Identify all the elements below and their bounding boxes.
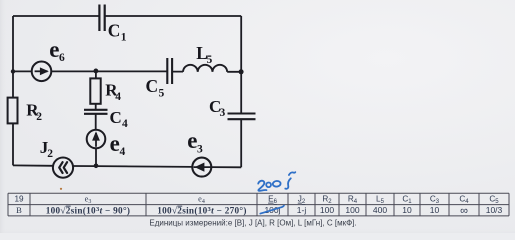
svg-text:5: 5 xyxy=(159,88,165,100)
svg-text:3: 3 xyxy=(197,144,203,156)
resistor R2 xyxy=(8,98,18,124)
strike through 100j xyxy=(260,206,284,214)
capacitor C4 xyxy=(84,110,108,114)
svg-text:10: 10 xyxy=(402,205,412,215)
capacitor C5 xyxy=(167,58,172,84)
wire left side xyxy=(12,16,14,165)
svg-text:4: 4 xyxy=(120,146,126,158)
svg-text:3: 3 xyxy=(220,107,226,119)
svg-text:C: C xyxy=(146,76,159,96)
svg-text:100: 100 xyxy=(320,205,334,215)
wire R4 branch vertical xyxy=(95,71,97,166)
handwritten 200j annotation xyxy=(258,172,295,191)
table grid xyxy=(8,193,509,216)
source e3 xyxy=(192,158,211,177)
wire middle horizontal xyxy=(13,70,241,72)
svg-text:2: 2 xyxy=(47,148,53,160)
svg-text:e: e xyxy=(110,131,120,156)
capacitor C1 xyxy=(99,5,104,32)
svg-text:100√2sin(103t − 270°): 100√2sin(103t − 270°) xyxy=(157,206,246,216)
svg-text:19: 19 xyxy=(14,195,24,204)
table value row xyxy=(16,205,502,217)
wire top side xyxy=(13,15,241,17)
svg-text:100: 100 xyxy=(345,205,359,215)
svg-text:5: 5 xyxy=(207,54,213,66)
svg-text:10/3: 10/3 xyxy=(486,205,503,215)
source J2 xyxy=(53,158,73,178)
svg-text:C: C xyxy=(108,21,121,41)
source e6 xyxy=(32,62,52,82)
svg-text:10: 10 xyxy=(430,205,440,215)
svg-text:C: C xyxy=(110,108,122,127)
svg-text:∞: ∞ xyxy=(460,205,468,217)
node bottom (e4 branch) xyxy=(94,164,99,169)
node middle (R4 top) xyxy=(94,69,99,74)
source e4 xyxy=(87,130,106,149)
svg-text:6: 6 xyxy=(59,52,65,64)
svg-text:В: В xyxy=(16,205,22,215)
node right-middle xyxy=(239,69,244,74)
svg-text:400: 400 xyxy=(373,205,387,215)
resistor R4 xyxy=(90,78,100,103)
wire bottom side xyxy=(13,165,241,167)
svg-text:Единицы измерений:e [В], J [А]: Единицы измерений:e [В], J [А], R [Ом], … xyxy=(149,218,356,227)
svg-text:4: 4 xyxy=(122,118,128,130)
svg-text:4: 4 xyxy=(115,91,121,103)
speck xyxy=(60,188,62,190)
capacitor C3 xyxy=(228,114,256,120)
svg-text:1: 1 xyxy=(121,32,127,44)
wire right side xyxy=(240,16,242,167)
table header row xyxy=(14,195,499,206)
svg-text:2: 2 xyxy=(36,111,42,123)
svg-text:e: e xyxy=(49,37,59,62)
inductor L5 xyxy=(183,65,227,72)
node left-middle xyxy=(11,69,15,73)
svg-text:100√2sin(103t − 90°): 100√2sin(103t − 90°) xyxy=(46,206,131,216)
svg-text:e: e xyxy=(187,128,197,153)
svg-text:1-j: 1-j xyxy=(297,205,307,215)
